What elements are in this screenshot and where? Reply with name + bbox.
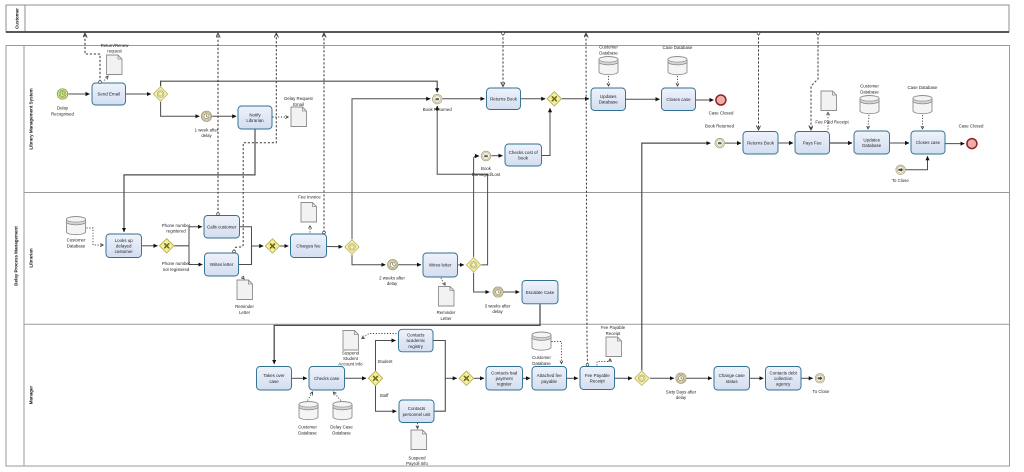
svg-text:Receipt: Receipt [606,331,622,336]
svg-text:academic: academic [406,338,426,343]
svg-text:Customer: Customer [298,425,317,430]
timer event 2 weeks after delay [388,260,398,270]
svg-text:customer: customer [115,249,134,254]
svg-text:Recognised: Recognised [51,111,75,116]
association Pays Fee -> Fee Paid Receipt [827,113,829,130]
wire Checks cost of book -> XOR gateway [542,108,550,155]
svg-text:request: request [107,49,122,54]
task Contacts debt collection agency [766,367,802,391]
message flow Customer -> Returns Book 2 [758,33,760,129]
svg-text:Attached fee: Attached fee [537,373,562,378]
label Delay Recognised [51,105,75,116]
task Escalate Case [522,281,558,304]
wire Closes case -> end Case Closed [696,99,714,101]
svg-text:Customer: Customer [599,45,618,50]
label Suspend Student Account Info [338,350,363,366]
svg-text:Database: Database [860,90,879,95]
svg-text:Database: Database [862,143,882,148]
svg-text:Payroll Info: Payroll Info [406,461,428,466]
svg-text:delay: delay [492,309,503,314]
event gateway after Charges fee [345,240,359,254]
svg-text:Escalate Case: Escalate Case [526,290,555,295]
association Contacts academic registry -> Suspend Student doc [362,334,397,339]
svg-text:delay: delay [387,281,398,286]
wire Contacts academic registry -> merge [433,341,445,379]
svg-text:agency: agency [776,382,791,387]
svg-text:Calls customer: Calls customer [207,225,237,230]
svg-text:Fee Invoice: Fee Invoice [298,194,321,199]
task Returns Book [487,88,521,110]
message flow Writes letter -> Customer [234,34,276,252]
event gateway after Send Email [153,87,167,101]
message flow Send Email -> Customer [85,34,100,82]
document Fee Payable Receipt [606,337,622,357]
association Notify Librarian -> Delay Request Email [273,116,289,118]
svg-text:Librarian: Librarian [246,118,264,123]
svg-text:Case Closed: Case Closed [959,123,984,128]
wire Returns Book -> XOR gateway [521,98,545,100]
svg-text:Letter: Letter [239,310,251,315]
task Fee Payable Receipt [580,367,615,390]
svg-text:Closes case: Closes case [916,140,941,145]
timer event 1 week after delay [201,111,211,121]
label Customer Database (LMS) [599,45,618,56]
message flow Fee Payable Receipt -> Customer [586,34,588,365]
svg-text:case: case [269,379,279,384]
wire Book Damaged/Lost -> Checks cost of book [491,155,502,157]
data store Case Database (right) [913,96,932,114]
task Contacts bad payment register [486,367,523,391]
association Case Database -> Closes case 2 [922,115,924,129]
document Fee Invoice [301,203,317,223]
document Suspend Payroll Info [411,430,427,450]
svg-text:collection: collection [774,376,793,381]
document Delay Request Email [291,107,307,127]
association Wires letter -> Reminder Letter 2 [441,278,445,285]
wire Checks case -> XOR student/staff [345,377,366,379]
svg-text:Wires letter: Wires letter [429,263,452,268]
data store Delay Case Database [333,402,352,420]
task Notify Librarian [238,106,272,129]
label 2 weeks after delay [379,275,405,286]
svg-text:Staff: Staff [380,393,390,398]
svg-text:not registered: not registered [163,267,190,272]
wire To Close link -> Closes case 2 [905,156,927,170]
label Customer Database (Manager) [298,425,317,436]
wire librarian event gateway -> timer 2 weeks [352,255,385,265]
task Wires letter [423,253,458,277]
data store Customer Database (Manager) [299,402,318,420]
svg-text:registered: registered [166,229,186,234]
lane divider Library Management System / Librarian [24,192,1010,194]
svg-text:Takes over: Takes over [263,373,285,378]
svg-text:Database: Database [599,51,618,56]
wire timer Sixty Days -> Change case status [687,377,712,379]
svg-text:Contacts: Contacts [407,333,425,338]
task Writes letter [205,253,239,276]
svg-text:Case Database: Case Database [908,85,939,90]
svg-text:Library Management System: Library Management System [29,88,34,149]
task Charges fee [291,234,327,258]
label Return/Renew request [101,43,130,54]
task Contacts personnel unit [399,400,434,423]
svg-text:Contacts bad: Contacts bad [491,370,518,375]
wire Writes letter -> merge XOR [239,246,252,265]
wire wires-letter gateway right -> Book Returned 1 (bottom) [437,106,487,265]
wire Attached fee payable -> Fee Payable Receipt [567,377,578,379]
wire event gateway bottom -> timer 1 week [161,102,200,117]
wire start->Send Email [68,93,89,95]
svg-text:Database: Database [599,100,619,105]
svg-text:Fee Payable: Fee Payable [601,325,626,330]
task Contacts academic registry [399,329,434,352]
task Updates Database [591,88,626,111]
association Customer Database -> Attached fee payable [552,342,562,364]
svg-text:Reminder: Reminder [235,304,254,309]
wire wires-letter gateway -> timer 3 weeks [474,273,490,292]
svg-text:Student: Student [343,356,359,361]
end event Case Closed 1 [716,95,726,105]
task Returns Book 2 [743,132,778,155]
svg-text:Writes letter: Writes letter [210,262,234,267]
svg-text:Delay Request: Delay Request [284,96,313,101]
svg-text:Notify: Notify [249,112,261,117]
svg-text:Delay Process Management: Delay Process Management [14,226,19,286]
svg-text:Phone number: Phone number [162,223,191,228]
wire wires-letter gateway top -> Book Damaged/Lost [474,156,479,257]
task Takes over case [257,367,292,391]
wire Book Returned 1 -> Returns Book [443,98,485,100]
wire Returns Book 2 -> Pays Fee [779,142,794,144]
svg-text:Database: Database [67,243,86,248]
wire Escalate Case -> Takes over case [274,304,540,364]
link event To Close (LMS) [896,165,905,174]
svg-text:payment: payment [496,376,514,381]
svg-text:Contacts: Contacts [408,406,426,411]
svg-text:Database: Database [332,431,351,436]
svg-text:Checks case: Checks case [314,376,340,381]
association Customer Database -> Looks up [87,228,104,245]
svg-text:Change case: Change case [719,373,746,378]
wire Takes over case -> Checks case [292,377,307,379]
svg-text:Book Returned: Book Returned [705,123,735,128]
message flow Customer -> Returns Book 1 [502,33,504,85]
wire XOR gateway -> Updates Database [562,98,589,100]
data store Case Database (LMS) [668,57,687,75]
link event To Close (Manager) [815,374,824,383]
svg-text:Sixty Days after: Sixty Days after [666,389,697,394]
svg-text:Contacts debt: Contacts debt [770,370,798,375]
svg-text:Customer: Customer [532,355,551,360]
label Phone number not registered [162,261,191,272]
svg-text:Librarian: Librarian [29,248,34,268]
svg-text:delay: delay [201,133,212,138]
XOR gateway student/staff [368,371,382,385]
task Attached fee payable [532,367,567,391]
wire Book Returned 2 -> Returns Book 2 [725,142,741,144]
svg-text:1 week after: 1 week after [195,128,219,133]
association Customer Database -> Checks case [308,392,313,400]
svg-text:Closes case: Closes case [666,97,691,102]
document Reminder Letter 2 [439,287,455,307]
svg-text:Phone number: Phone number [162,261,191,266]
XOR gateway after Returns Book [547,92,561,106]
svg-text:Customer: Customer [67,238,86,243]
association Case Database -> Closes case [677,76,679,86]
wire timer 1 week -> Notify Librarian [212,115,236,117]
wire Contacts debt collection agency -> To Close link [802,377,813,379]
svg-text:Suspend: Suspend [342,350,360,355]
XOR merge gateway manager [459,371,473,385]
task Updates Database 2 [854,131,890,154]
data store Customer Database (manager right) [532,332,551,350]
wire branch registered -> Calls customer [189,227,202,246]
label Reminder Letter 2 [437,310,456,321]
message flow Customer -> Pays Fee [811,33,818,129]
svg-text:Updates: Updates [600,94,617,99]
svg-text:book: book [518,156,528,161]
svg-text:Fee Payable: Fee Payable [585,373,610,378]
svg-text:Delay: Delay [57,105,69,110]
svg-text:Book Returned: Book Returned [423,107,453,112]
association Delay Case Database -> Checks case [334,392,342,400]
association Customer Database -> Updates Database 2 [868,115,869,129]
wire Looks up -> XOR phone [142,245,158,247]
svg-text:Delay Case: Delay Case [330,425,353,430]
intermediate event Book Returned 2 [715,138,725,148]
wire timer 3 weeks -> Escalate Case [504,291,520,293]
svg-text:payable: payable [541,379,557,384]
svg-text:Database: Database [532,361,551,366]
svg-text:Returns Book: Returns Book [747,141,775,146]
association Contacts personnel unit -> Suspend Payroll doc [417,423,419,428]
association to Return/Renew request doc [104,76,108,80]
wire Updates Database 2 -> Closes case 2 [890,142,909,144]
message flow Charges fee -> Customer [323,34,325,233]
end event Case Closed 2 [967,139,977,149]
svg-text:Updates: Updates [863,137,880,142]
svg-text:personnel unit: personnel unit [403,412,432,417]
wire XOR phone stem [174,245,189,247]
wire Change case status -> Contacts debt collection agency [750,377,763,379]
svg-text:Case Database: Case Database [663,45,694,50]
task Closes case 2 [911,131,945,154]
svg-text:Manager: Manager [29,386,34,405]
svg-text:To Close: To Close [892,178,909,183]
document Reminder Letter 1 [237,280,253,300]
wire Closes case 2 -> end Case Closed 2 [945,143,964,145]
wire Contacts personnel unit -> merge [435,378,446,411]
event gateway after Wires letter [466,258,480,272]
timer event 3 weeks after delay [493,287,503,297]
wire Calls customer -> merge XOR [240,227,263,246]
task Send Email [92,83,126,105]
task Closes case [662,88,696,111]
wire branch Staff -> Contacts personnel unit [376,386,397,412]
wire Fee Payable Receipt -> manager event gateway [615,377,632,379]
start event Delay Recognised [57,89,67,99]
label Suspend Payroll Info [406,456,428,467]
label Book Damaged/Lost [472,166,501,177]
svg-text:Send Email: Send Email [97,92,120,97]
wire Contacts bad payment register -> Attached fee payable [523,377,530,379]
wire merge -> XOR merge gateway [445,377,456,379]
svg-text:registry: registry [408,344,423,349]
svg-text:Database: Database [298,431,317,436]
wire timer 2 weeks -> Wires letter [398,264,421,266]
wire merge XOR -> Charges fee [280,245,288,247]
svg-text:delay: delay [676,395,687,400]
svg-text:Account Info: Account Info [338,362,363,367]
svg-text:Returns Book: Returns Book [490,97,518,102]
svg-text:To Close: To Close [813,389,830,394]
svg-text:Charges fee: Charges fee [296,244,321,249]
svg-text:Return/Renew: Return/Renew [101,43,130,48]
label 1 week after delay [195,128,219,139]
wire event gateway top -> Book Returned 1 (top) [161,81,438,92]
wire XOR merge -> Contacts bad payment register [474,377,484,379]
svg-text:3 weeks after: 3 weeks after [485,303,511,308]
svg-text:Checks cost of: Checks cost of [509,150,539,155]
svg-text:Damaged/Lost: Damaged/Lost [472,172,501,177]
wire Pays Fee -> Updates Database 2 [830,142,852,144]
merge XOR gateway after calls/writes [265,239,279,253]
svg-text:Customer: Customer [15,8,20,29]
label Customer Database (right) [860,84,879,95]
svg-text:Book: Book [481,166,492,171]
svg-text:2 weeks after: 2 weeks after [379,275,405,280]
document Fee Paid Receipt [821,91,837,111]
wire manager event gateway -> timer Sixty Days [650,377,674,379]
svg-text:Customer: Customer [860,84,879,89]
svg-text:delayed: delayed [116,244,132,249]
lane divider Librarian / Manager [24,323,1010,325]
association Writes letter -> Reminder Letter [242,277,244,279]
wire branch Student -> Contacts academic registry [376,341,396,371]
data store Customer Database (Librarian) [67,217,86,235]
document Return/Renew request [107,55,123,75]
label Reminder Letter 1 [235,304,254,315]
wire Notify Librarian -> Looks up delayed customer [124,130,255,232]
label Phone number registered [162,223,191,234]
wire Wires letter -> wires-letter gateway [458,264,464,266]
svg-text:Email: Email [293,102,304,107]
label Customer Database (Librarian) [67,238,86,249]
wire librarian event gateway -> Book Returned 1 (left) [352,99,430,240]
svg-text:Student: Student [378,359,394,364]
task Pays Fee [795,132,830,155]
task Looks up delayed customer [106,234,142,258]
task Change case status [714,367,750,391]
svg-text:register: register [497,382,512,387]
label Customer Database (manager right) [532,355,551,366]
message flow Calls customer -> Customer [217,34,219,214]
svg-text:Suspend: Suspend [408,456,426,461]
intermediate event Book Returned 1 [432,94,442,104]
task Calls customer [204,216,240,239]
association Customer Database -> Updates Database [608,76,610,86]
svg-text:Looks up: Looks up [115,238,134,243]
svg-text:status: status [726,379,739,384]
label Delay Case Database [330,425,353,436]
svg-text:Case Closed: Case Closed [709,110,734,115]
document Suspend Student Account Info [343,331,359,351]
association Charges fee -> Fee Invoice [309,226,311,233]
wire Charges fee -> librarian event gateway [327,246,342,248]
svg-text:Letter: Letter [440,316,452,321]
wire manager event gateway -> Book Returned 2 [642,143,711,370]
timer event Sixty Days after delay [676,373,686,383]
intermediate event Book Damaged/Lost [481,151,491,161]
wire Updates Database -> Closes case [626,98,660,100]
svg-text:Reminder: Reminder [437,310,456,315]
svg-text:Pays Fee: Pays Fee [803,141,822,146]
wire branch not registered -> Writes letter [189,246,202,265]
data store Customer Database (LMS) [599,57,618,75]
XOR gateway phone number [160,239,174,253]
task Checks case [309,367,345,391]
association Fee Payable Receipt task -> doc [597,359,610,366]
data store Customer Database (right) [860,96,879,114]
pool Customer (collapsed) [6,5,1009,32]
label Sixty Days after delay [666,389,697,400]
wire Send Email->event gateway [126,93,151,95]
event gateway manager [635,371,649,385]
svg-text:Receipt: Receipt [590,379,606,384]
svg-text:Fee Paid Receipt: Fee Paid Receipt [815,120,849,125]
label 3 weeks after delay [485,303,511,314]
label Fee Payable Receipt doc [601,325,626,336]
task Checks cost of book [505,144,542,166]
label Delay Request Email [284,96,313,107]
